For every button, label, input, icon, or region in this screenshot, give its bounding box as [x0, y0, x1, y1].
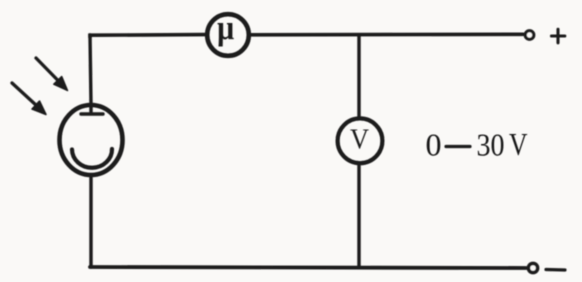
phototube cathode (curved arc): [72, 149, 112, 168]
phototube anode (T electrode): [81, 104, 103, 114]
wire left vertical (corner down to phototube): [90, 35, 91, 104]
svg-text:μ: μ: [217, 8, 234, 47]
wire left vertical (phototube to bottom-left corner): [89, 176, 92, 267]
voltmeter V: [338, 118, 383, 163]
svg-text:30: 30: [477, 127, 505, 163]
light ray arrow 2: [12, 83, 46, 115]
label +: [552, 29, 565, 43]
wire voltmeter branch upper: [357, 35, 360, 118]
wire bottom segment (corner to − terminal): [90, 267, 526, 268]
light ray arrow 1: [36, 58, 68, 91]
svg-text:V: V: [350, 124, 369, 156]
value label 0 — 30 V: [426, 126, 528, 163]
microammeter M1: [207, 14, 249, 56]
wire top-right segment (microammeter to + terminal): [251, 32, 523, 36]
phototube (photocell) envelope: [60, 105, 123, 175]
svg-text:0: 0: [426, 127, 442, 163]
terminal − (open circle): [528, 263, 537, 272]
voltmeter label V: [350, 124, 369, 156]
label −: [546, 268, 565, 272]
wire voltmeter branch lower: [357, 163, 360, 268]
terminal + (open circle): [525, 31, 534, 40]
svg-text:V: V: [509, 126, 528, 162]
wire top-left segment (corner to microammeter): [90, 35, 206, 37]
microammeter label μ: [217, 8, 234, 47]
value label dash: [446, 145, 470, 148]
